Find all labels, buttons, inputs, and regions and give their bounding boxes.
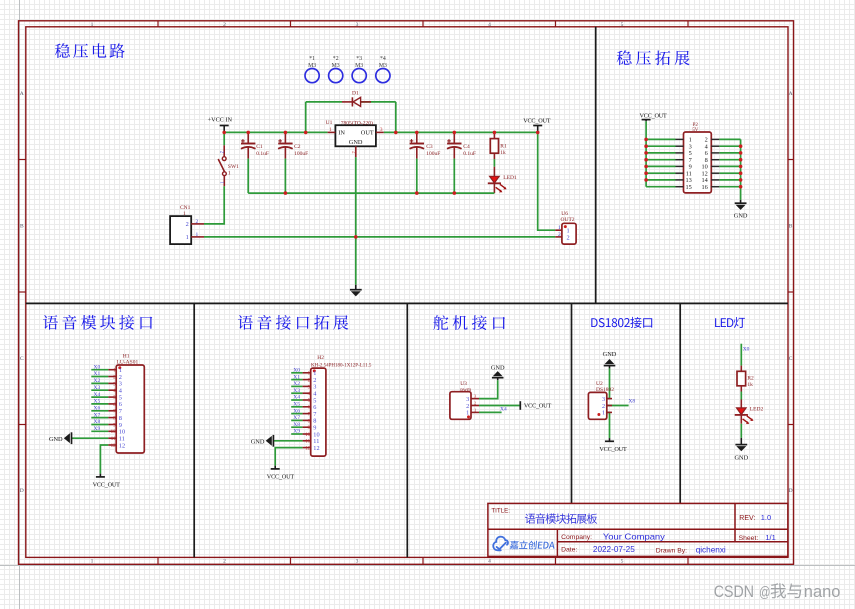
wire CN1 pin1 to U6 pin2 (GND net)	[204, 236, 555, 238]
wire P2 pin 5	[646, 152, 675, 154]
ground symbol (U2, pointing up)	[603, 351, 617, 368]
svg-text:12: 12	[313, 445, 319, 452]
frame column numbers	[91, 22, 624, 565]
svg-text:1: 1	[602, 410, 605, 417]
svg-text:*2: *2	[333, 56, 339, 62]
net label X1	[293, 374, 300, 380]
H1 pin 9	[108, 422, 122, 429]
svg-text:R1: R1	[500, 143, 507, 149]
wire GND to H2 pin 11	[273, 440, 302, 442]
wire P2 pin 16	[719, 186, 740, 188]
svg-text:pwm: pwm	[460, 387, 472, 393]
svg-text:U1: U1	[326, 120, 333, 126]
Company label and value	[561, 532, 666, 541]
svg-text:M3: M3	[308, 63, 316, 69]
svg-text:C1: C1	[256, 144, 263, 150]
svg-text:D: D	[20, 488, 24, 494]
svg-text:2: 2	[223, 22, 226, 28]
P2 pin 2	[705, 137, 720, 144]
net label X4	[94, 392, 101, 398]
wire net X3 to H1 pin 4	[91, 389, 108, 391]
svg-text:X6: X6	[94, 406, 101, 412]
svg-text:1: 1	[474, 407, 476, 412]
wire P2 pin 11	[646, 172, 675, 174]
svg-text:100uF: 100uF	[426, 151, 440, 157]
wire net X9 to H1 pin 10	[91, 430, 108, 432]
wire P2 pin 4	[719, 145, 740, 147]
section divider left of DS1802接口	[571, 303, 573, 503]
svg-text:GND: GND	[251, 438, 265, 445]
svg-text:11: 11	[111, 437, 116, 442]
P2 pin 11	[676, 171, 692, 178]
wire X0 to R2	[740, 344, 742, 366]
wire VCC_OUT to H2 pin 12	[275, 448, 302, 466]
svg-text:10: 10	[305, 433, 311, 438]
wire C3 to ground rail	[416, 159, 418, 194]
svg-text:C2: C2	[294, 144, 301, 150]
header P2 5V	[676, 123, 720, 193]
P2 pin 1	[676, 137, 692, 144]
mounting hole M4	[376, 56, 390, 82]
H1 pin 6	[108, 401, 122, 408]
svg-text:2: 2	[558, 232, 561, 238]
U1 pin 3	[376, 128, 384, 133]
svg-text:C4: C4	[463, 144, 470, 150]
mounting hole M1	[305, 56, 319, 82]
net label X9	[94, 426, 101, 432]
net label X6	[293, 408, 300, 414]
wire net X1 to H1 pin 2	[91, 376, 108, 378]
capacitor C1	[241, 132, 269, 158]
svg-text:LED2: LED2	[750, 406, 764, 412]
svg-text:B: B	[789, 224, 793, 230]
connector H1 LU-AS01	[108, 354, 144, 453]
svg-text:GND: GND	[349, 139, 363, 146]
wire U2 pin1 to VCC_OUT	[607, 412, 610, 438]
net flag +VCC IN	[208, 117, 233, 133]
svg-text:X0: X0	[743, 346, 750, 352]
svg-text:1k: 1k	[500, 150, 506, 156]
svg-text:5V: 5V	[692, 128, 699, 133]
junction dots P2 right bus	[739, 144, 743, 188]
U3 pin 3	[466, 394, 479, 403]
svg-text:M3: M3	[355, 63, 363, 69]
connector CN1	[170, 205, 204, 244]
net label X3	[94, 385, 101, 391]
svg-text:+VCC IN: +VCC IN	[208, 117, 233, 124]
svg-text:qichenxi: qichenxi	[696, 546, 726, 555]
capacitor C3	[410, 132, 441, 158]
svg-text:12: 12	[119, 442, 125, 449]
svg-text:VCC_OUT: VCC_OUT	[599, 446, 627, 453]
wire net X9 to H2 pin 10	[291, 433, 302, 435]
wire D1 top right	[360, 101, 395, 103]
section title 语音接口拓展	[238, 315, 348, 330]
svg-text:C: C	[20, 356, 24, 362]
wire net X5 to H2 pin 6	[291, 406, 302, 408]
net label X6	[94, 406, 101, 412]
svg-text:C3: C3	[426, 144, 433, 150]
wire U2 pin3 to GND	[607, 368, 610, 398]
H1 pin 4	[108, 388, 122, 395]
svg-text:7805(TO-220): 7805(TO-220)	[341, 120, 373, 127]
wire net X5 to H1 pin 6	[91, 403, 108, 405]
H2 pin 11	[303, 438, 320, 445]
svg-text:X2: X2	[94, 378, 101, 384]
svg-text:IN: IN	[338, 130, 345, 137]
net label X7	[94, 412, 101, 418]
svg-text:1: 1	[466, 410, 469, 417]
svg-text:@: @	[759, 585, 771, 601]
P2 pin 3	[676, 144, 692, 151]
P2 pin 10	[702, 164, 720, 171]
wire P2 pin 3	[646, 145, 675, 147]
svg-text:1: 1	[91, 22, 94, 28]
net flag VCC_OUT (H2)	[267, 466, 295, 481]
svg-text:A: A	[20, 91, 24, 97]
svg-text:GND: GND	[491, 364, 505, 371]
svg-text:CSDN: CSDN	[714, 583, 754, 601]
svg-text:3: 3	[356, 559, 359, 565]
wire net X8 to H1 pin 9	[91, 424, 108, 426]
wire net X2 to H1 pin 3	[91, 382, 108, 384]
wire net X2 to H2 pin 3	[291, 385, 302, 387]
svg-text:VCC_OUT: VCC_OUT	[524, 403, 552, 410]
wire VCC_OUT to H1 pin 12	[100, 445, 108, 474]
svg-text:2022-07-25: 2022-07-25	[593, 545, 635, 554]
wire P2 pin 9	[646, 165, 675, 167]
P2 pin 15	[676, 184, 692, 191]
connector U6 OUT2	[555, 211, 576, 244]
regulator U1 7805	[326, 120, 384, 158]
svg-text:X4: X4	[500, 406, 507, 412]
P2 pin 14	[702, 177, 720, 184]
wire R2 to LED2	[740, 392, 742, 400]
H1 pin 12	[108, 442, 125, 449]
svg-text:12: 12	[111, 444, 117, 449]
svg-text:B: B	[20, 224, 24, 230]
wire VCC_OUT down to U6 pin1	[538, 132, 556, 230]
svg-text:M3: M3	[332, 63, 340, 69]
wire P2 pin 8	[719, 159, 740, 161]
H2 pin 5	[303, 397, 317, 404]
U6 pin 2	[555, 232, 569, 241]
H1 pin 8	[108, 415, 122, 422]
connector U2 DS1802	[588, 381, 614, 419]
wire U3 pin1 net X4	[479, 411, 502, 413]
section title DS1802接口	[591, 317, 652, 328]
H1 pin 7	[108, 408, 122, 415]
svg-text:1: 1	[91, 559, 94, 565]
svg-text:Date:: Date:	[561, 547, 577, 554]
svg-text:X6: X6	[293, 408, 300, 414]
junction dot GND net	[354, 235, 358, 239]
mounting hole M3	[352, 56, 366, 82]
P2 pin 9	[676, 164, 692, 171]
svg-text:100uF: 100uF	[294, 151, 308, 157]
wire net X4 to H1 pin 5	[91, 396, 108, 398]
net label X7	[293, 415, 300, 421]
svg-text:X4: X4	[293, 395, 300, 401]
svg-text:0.1uF: 0.1uF	[256, 151, 269, 157]
svg-text:GND: GND	[603, 351, 617, 358]
net flag VCC_OUT (P2)	[640, 112, 668, 121]
wire net X7 to H2 pin 8	[291, 419, 302, 421]
svg-text:2: 2	[567, 234, 570, 241]
net label X8	[293, 422, 300, 428]
U2 pin 2	[602, 403, 612, 410]
svg-text:LED1: LED1	[503, 175, 517, 181]
svg-text:VCC_OUT: VCC_OUT	[523, 117, 551, 124]
net flag VCC_OUT (U2)	[599, 438, 627, 453]
P2 pin 7	[676, 157, 692, 164]
P2 pin 13	[676, 177, 692, 184]
svg-text:1k: 1k	[747, 382, 753, 388]
section divider left of 语音接口拓展	[193, 303, 195, 557]
wire P2 pin 7	[646, 159, 675, 161]
svg-text:TITLE:: TITLE:	[491, 507, 510, 514]
net label X8	[628, 399, 635, 405]
wire C4 to ground rail	[453, 159, 455, 194]
svg-text:REV:: REV:	[739, 515, 755, 522]
svg-text:2: 2	[223, 559, 226, 565]
svg-text:A: A	[789, 91, 793, 97]
svg-text:1: 1	[228, 171, 231, 177]
H2 pin 6	[303, 404, 317, 411]
svg-text:X8: X8	[293, 422, 300, 428]
net label X3	[293, 388, 300, 394]
section title 语音模块接口	[43, 315, 152, 330]
svg-text:1: 1	[186, 234, 189, 241]
svg-text:1: 1	[558, 225, 561, 231]
Sheet label and value	[739, 533, 776, 542]
net label X0	[293, 368, 300, 374]
watermark CSDN @我与nano	[714, 583, 841, 601]
wire LED2 to GND	[740, 424, 742, 438]
net flag VCC_OUT (top)	[523, 117, 551, 132]
H1 pin 5	[108, 394, 122, 401]
svg-text:DS1802: DS1802	[596, 387, 614, 393]
svg-text:X5: X5	[293, 402, 300, 408]
title value 语音模块拓展板	[525, 513, 597, 523]
svg-text:Company:: Company:	[561, 534, 592, 541]
H2 pin 1	[303, 370, 317, 377]
U6 pin 1	[555, 225, 569, 235]
ground symbol (U3, pointing up)	[491, 364, 505, 380]
CN1 pin 2	[186, 219, 204, 228]
svg-text:4: 4	[488, 559, 491, 565]
svg-text:GND: GND	[734, 213, 748, 220]
svg-text:4: 4	[488, 22, 491, 28]
H2 pin 4	[303, 391, 318, 398]
svg-text:X2: X2	[293, 381, 300, 387]
svg-text:X9: X9	[94, 426, 101, 432]
svg-text:*1: *1	[309, 56, 315, 62]
H2 pin 10	[303, 431, 320, 438]
svg-text:1: 1	[196, 232, 199, 238]
resistor R1	[490, 132, 507, 159]
net label X2	[293, 381, 300, 387]
svg-text:0.1uF: 0.1uF	[463, 151, 476, 157]
svg-text:X7: X7	[293, 415, 300, 421]
capacitor C4	[447, 132, 476, 158]
svg-text:X5: X5	[94, 399, 101, 405]
P2 pin 6	[705, 150, 720, 157]
svg-text:X4: X4	[94, 392, 101, 398]
svg-text:X1: X1	[293, 374, 300, 380]
svg-text:X3: X3	[293, 388, 300, 394]
connector U3 pwm	[450, 381, 479, 419]
svg-text:SW1: SW1	[228, 164, 239, 170]
LED LED2	[735, 400, 764, 425]
H2 pin 8	[303, 418, 317, 425]
H2 pin 7	[303, 411, 317, 418]
capacitor C2	[278, 132, 308, 158]
svg-text:2: 2	[196, 219, 199, 225]
wire P2 right bus	[740, 139, 742, 200]
H2 pin 12	[303, 445, 320, 452]
title block frame	[488, 503, 788, 556]
svg-text:16: 16	[702, 184, 708, 191]
wire P2 pin 1	[646, 138, 675, 140]
section divider left of LED灯	[679, 303, 681, 503]
net label X0	[94, 364, 101, 370]
svg-text:10: 10	[111, 430, 117, 435]
wire GND to H1 pin 11	[72, 437, 109, 439]
svg-text:2: 2	[474, 400, 476, 405]
junction dots main rail	[222, 131, 539, 135]
svg-text:*4: *4	[380, 56, 386, 62]
U1 pin 2 GND	[351, 146, 356, 157]
connector H2 KH-2.54PH180-1X12P-L11.5	[303, 355, 372, 456]
title block TITLE label	[491, 507, 510, 514]
svg-text:D1: D1	[352, 91, 359, 97]
wire R1 to LED1	[493, 159, 495, 167]
wire net X0 to H2 pin 1	[291, 372, 302, 374]
wire net X4 to H2 pin 5	[291, 399, 302, 401]
svg-text:OUT: OUT	[361, 130, 374, 137]
svg-text:Sheet:: Sheet:	[739, 535, 759, 542]
svg-text:X8: X8	[94, 419, 101, 425]
H1 pin 1	[108, 367, 122, 374]
svg-text:C: C	[789, 356, 793, 362]
wire P2 pin 6	[719, 152, 740, 154]
svg-text:X8: X8	[628, 399, 635, 405]
svg-text:5: 5	[621, 22, 624, 28]
H1 pin 11	[108, 436, 124, 443]
net flag VCC_OUT (U3)	[520, 401, 551, 410]
U2 pin 3	[602, 396, 612, 403]
wire P2 pin 15	[646, 186, 675, 188]
REV label and value	[739, 513, 771, 522]
P2 pin 5	[676, 150, 692, 157]
P2 pin 12	[702, 171, 720, 178]
svg-text:15: 15	[686, 184, 692, 191]
U1 pin 1	[328, 128, 336, 133]
svg-text:12: 12	[305, 447, 311, 452]
svg-text:1.0: 1.0	[761, 513, 771, 522]
wire net X1 to H2 pin 2	[291, 379, 302, 381]
ground symbol (P2)	[734, 200, 748, 220]
P2 pin 8	[705, 157, 720, 164]
wire P2 pin 2	[719, 138, 740, 140]
H2 pin 9	[303, 425, 317, 432]
U3 pin 1	[466, 407, 479, 416]
section title 稳压电路	[55, 43, 125, 58]
svg-text:OUT2: OUT2	[561, 217, 575, 223]
ground symbol (H1)	[49, 432, 72, 444]
section title 稳压拓展	[617, 50, 690, 65]
wire U3 pin2 to VCC_OUT	[479, 405, 520, 407]
H1 pin 10	[108, 429, 125, 436]
LED LED1	[488, 167, 517, 193]
net label X4	[293, 395, 300, 401]
junction dots P2 left bus	[644, 138, 648, 182]
mounting hole M2	[329, 56, 343, 82]
svg-text:H2: H2	[317, 355, 324, 361]
wire P2 pin 10	[719, 165, 740, 167]
svg-text:VCC_OUT: VCC_OUT	[640, 112, 668, 119]
svg-text:1: 1	[183, 211, 186, 217]
svg-text:VCC_OUT: VCC_OUT	[93, 482, 121, 489]
svg-text:nano: nano	[804, 583, 841, 601]
switch SW1	[218, 145, 239, 186]
wire SW1 to CN1 pin2	[204, 186, 224, 224]
wire net X0 to H1 pin 1	[91, 369, 108, 371]
wire net X8 to H2 pin 9	[291, 426, 302, 428]
svg-text:X0: X0	[94, 364, 101, 370]
P2 pin 4	[705, 144, 720, 151]
svg-text:5: 5	[621, 559, 624, 565]
wire D1 top left	[306, 101, 342, 103]
wire net X6 to H2 pin 7	[291, 413, 302, 415]
ground symbol (H2)	[251, 435, 274, 447]
U2 pin 1	[602, 410, 612, 417]
wire net X6 to H1 pin 7	[91, 410, 108, 412]
wire SW1 top	[223, 132, 225, 145]
svg-text:11: 11	[305, 440, 310, 445]
svg-text:Your Company: Your Company	[603, 532, 666, 541]
Date label and value	[561, 545, 635, 554]
svg-text:KH-2.54PH180-1X12P-L11.5: KH-2.54PH180-1X12P-L11.5	[311, 364, 372, 369]
junction dots ground rail	[284, 191, 457, 195]
ground symbol (LED2)	[734, 438, 748, 462]
svg-text:LU-AS01: LU-AS01	[117, 359, 139, 365]
net label X1	[94, 371, 101, 377]
svg-text:R2: R2	[747, 376, 754, 382]
wire U1 GND pin down	[355, 157, 357, 284]
svg-text:X9: X9	[293, 429, 300, 435]
section divider left of 舵机接口	[406, 303, 408, 557]
wire U3 pin3 to GND	[479, 380, 498, 398]
JLCEDA logo text 嘉立创EDA	[510, 541, 555, 550]
section title LED灯	[715, 317, 745, 328]
svg-text:X1: X1	[94, 371, 101, 377]
ground symbol (main)	[350, 285, 362, 297]
net label X2	[94, 378, 101, 384]
frame row letters	[20, 91, 793, 494]
wire D1 left riser	[305, 102, 307, 132]
wire ground rail (capacitor bottoms)	[248, 192, 494, 194]
svg-text:1/1: 1/1	[765, 533, 775, 542]
net label X5	[94, 399, 101, 405]
svg-text:GND: GND	[734, 454, 748, 461]
svg-text:*3: *3	[356, 56, 362, 62]
svg-text:3: 3	[356, 22, 359, 28]
H2 pin 2	[303, 377, 317, 384]
JLCEDA logo	[493, 537, 508, 551]
net label X4	[500, 406, 507, 412]
